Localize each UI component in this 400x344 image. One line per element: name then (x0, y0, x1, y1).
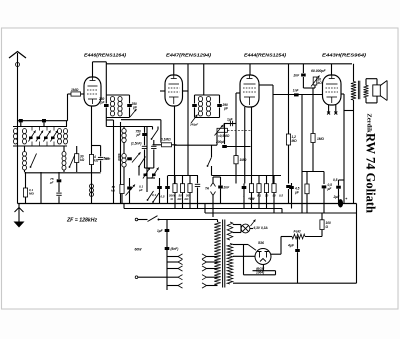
svg-text:≈0,5MΩ: ≈0,5MΩ (218, 134, 230, 138)
svg-text:50: 50 (265, 194, 269, 198)
svg-text:pF: pF (49, 180, 54, 184)
svg-text:5nF: 5nF (105, 157, 111, 161)
svg-text:E446(RENS1264): E446(RENS1264) (84, 53, 127, 58)
svg-text:4µF: 4µF (287, 244, 295, 248)
svg-text:0,5: 0,5 (161, 195, 165, 199)
svg-text:E447(RENS1294): E447(RENS1294) (166, 53, 212, 58)
svg-text:E444(RENS1254): E444(RENS1254) (244, 53, 287, 58)
svg-text:240pF: 240pF (189, 123, 198, 127)
svg-text:Feld: Feld (294, 230, 302, 234)
svg-text:0,5: 0,5 (333, 178, 338, 182)
svg-text:0,5: 0,5 (279, 194, 283, 198)
svg-text:60W: 60W (135, 248, 143, 252)
svg-text:60.000pF: 60.000pF (311, 69, 326, 73)
svg-text:6500: 6500 (117, 154, 121, 162)
svg-text:MΩ: MΩ (29, 192, 34, 196)
svg-text:E443H(RES964): E443H(RES964) (322, 53, 367, 58)
svg-text:RW 74 Goliath: RW 74 Goliath (364, 133, 378, 213)
svg-text:kΩ: kΩ (111, 189, 116, 193)
svg-text:ZF = 128kHz: ZF = 128kHz (66, 218, 98, 224)
svg-text:90: 90 (273, 194, 277, 198)
svg-text:200µF: 200µF (215, 140, 226, 144)
svg-text:0,1: 0,1 (152, 193, 156, 197)
svg-text:1MΩ: 1MΩ (240, 158, 247, 162)
svg-text:6,3V 0,3A: 6,3V 0,3A (254, 226, 269, 230)
svg-text:536: 536 (258, 241, 265, 245)
svg-text:1MΩ: 1MΩ (71, 88, 79, 92)
svg-text:kΩ: kΩ (94, 159, 99, 163)
svg-text:0,1: 0,1 (257, 194, 261, 198)
svg-text:MΩ: MΩ (292, 139, 298, 143)
svg-text:0,1MΩ: 0,1MΩ (161, 138, 171, 142)
svg-text:Zerdik: Zerdik (366, 113, 373, 133)
svg-text:(5nF): (5nF) (171, 247, 179, 251)
svg-text:1MΩ: 1MΩ (317, 137, 324, 141)
svg-text:2nF: 2nF (293, 74, 301, 78)
svg-text:Ω: Ω (325, 225, 329, 229)
svg-text:kΩ: kΩ (318, 81, 323, 85)
svg-text:kΩ: kΩ (80, 158, 85, 162)
svg-text:TA: TA (205, 187, 210, 191)
svg-text:(1,5nF): (1,5nF) (131, 142, 141, 146)
svg-text:2µF: 2µF (333, 195, 341, 199)
svg-text:µF: µF (138, 188, 143, 192)
svg-text:2nF: 2nF (223, 186, 231, 190)
